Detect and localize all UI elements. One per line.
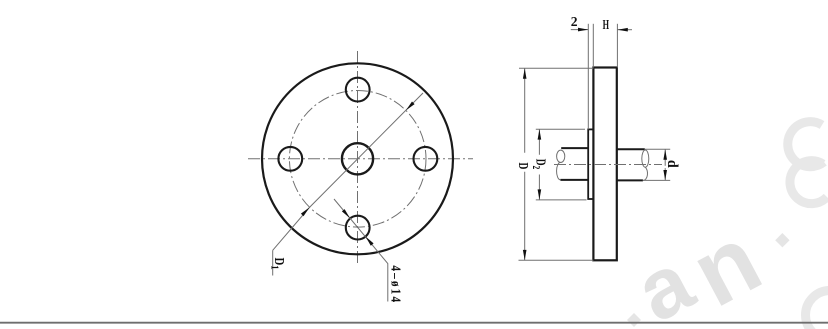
label D1 [268,257,287,269]
label D [515,163,531,170]
watermark period diamonds [627,233,790,327]
bolt hole right [414,147,438,171]
dim d line [664,150,666,181]
bolt hole left [278,147,302,171]
pipe right top [617,148,645,150]
label 4-O14 [388,265,403,304]
dim 2 leader [571,29,589,31]
dim D extension lines [519,67,593,69]
vertical center line [357,51,359,266]
D1 arrow upper-right [406,102,415,111]
svg-text:4–ø14: 4–ø14 [388,265,403,304]
flange rect [593,68,616,261]
label d [664,160,680,168]
D1 arrow lower-left [301,207,310,216]
dim D2 extension lines [536,128,585,130]
hub plate [588,129,594,199]
bolt hole top [346,78,370,102]
label D2 [530,159,550,170]
dim D2 line [538,129,540,199]
dim D line [524,68,526,260]
pipe break left [557,150,565,162]
D1 dimension diagonal line [273,93,423,250]
watermark letter arcs [788,122,828,329]
4-O14 arrow lower [366,237,374,246]
center line [554,164,662,166]
bolt hole bottom [346,216,370,240]
dim 2/H extension lines [587,24,589,130]
outer circle [262,63,453,254]
watermark letter a [621,205,777,329]
dim H leader [618,29,633,31]
svg-text:H: H [603,18,610,33]
center bore [342,143,373,174]
D1 leader vertical [272,250,274,275]
pipe left bottom [560,179,588,181]
pipe break right [642,150,649,167]
pipe left top [561,147,588,149]
dim d extension lines [645,148,670,150]
horizontal center line [248,158,473,160]
4-O14 leader [334,199,388,302]
4-O14 arrow upper [342,209,350,218]
svg-text:d: d [664,160,680,168]
bolt circle (dash-dot) [289,91,426,228]
svg-text:D: D [515,163,531,170]
pipe right bottom [617,179,643,181]
bottom rule [0,322,828,324]
svg-text:2: 2 [571,14,578,29]
